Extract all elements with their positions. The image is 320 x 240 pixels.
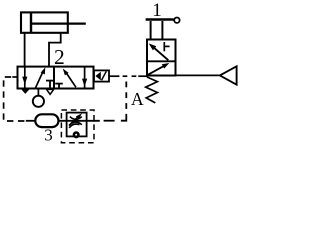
valve V2 body [18, 67, 94, 89]
svg-text:3: 3 [44, 125, 53, 144]
valve V1 bottom box arrow [148, 65, 165, 74]
wire dashed bottom horizontal to component 3 [104, 120, 115, 122]
valve V1 top box arrow [153, 47, 169, 61]
valve V2 pilot triangle [95, 72, 100, 80]
svg-text:1: 1 [152, 0, 162, 21]
valve V2 left box down arrow [24, 67, 26, 88]
cylinder body [21, 12, 68, 32]
exhaust triangle [220, 66, 237, 84]
cylinder piston rod [31, 23, 86, 25]
valve V2 right box diagonal arrow [65, 72, 76, 88]
restrictor arrow [69, 115, 80, 126]
flow control valve box [67, 113, 87, 137]
wire pilot stub left [12, 76, 17, 78]
valve V2 pilot diagonal [102, 71, 107, 80]
valve V2 exhaust open triangle [47, 89, 54, 94]
supply source circle [33, 96, 44, 107]
wire cylinder left port [24, 33, 26, 67]
valve V1 divider [147, 60, 176, 62]
wire dashed node A vertical [125, 82, 127, 88]
valve V1 top box blocked port [163, 42, 165, 51]
valve V1 plunger stems [150, 21, 152, 40]
valve V2 pilot box [94, 70, 109, 81]
wire pilot stub right [109, 75, 119, 77]
wire main line through component 3 [26, 120, 36, 122]
svg-text:2: 2 [54, 45, 65, 69]
cylinder piston [30, 12, 32, 32]
valve V1 body [147, 40, 176, 76]
wire exhaust line [176, 74, 220, 76]
wire cylinder right port step [49, 33, 61, 67]
valve V2 right box blocked port T [55, 83, 63, 85]
valve V1 roller circle [174, 18, 179, 23]
component 3 dashed enclosure [61, 110, 94, 143]
valve V1 roller lever bar [146, 18, 174, 20]
air reservoir oval [35, 114, 58, 127]
wire dashed pilot line to valve 1 [123, 75, 128, 77]
valve V2 divider [53, 67, 55, 89]
check valve ball [74, 133, 79, 138]
restrictor arcs [70, 117, 82, 120]
wire dashed pilot loop left [4, 77, 26, 121]
valve V2 left box blocked port T [46, 80, 54, 82]
check valve seat arc [69, 124, 79, 128]
svg-text:A: A [131, 89, 144, 109]
valve V2 left box diagonal arrow [35, 70, 43, 88]
valve V1 spring [146, 77, 158, 103]
valve V2 exhaust filled triangle [21, 89, 29, 94]
valve V2 right box down arrow [84, 67, 86, 88]
wire supply stem [37, 89, 39, 96]
